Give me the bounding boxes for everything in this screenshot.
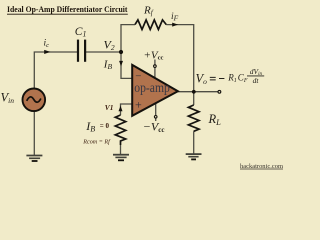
svg-text:dt: dt xyxy=(253,76,260,85)
svg-text:= 0: = 0 xyxy=(100,122,110,130)
svg-text:Ideal Op-Amp Differentiator Ci: Ideal Op-Amp Differentiator Circuit xyxy=(7,4,128,14)
svg-text:+: + xyxy=(135,98,142,112)
svg-text:Rcom = Rf: Rcom = Rf xyxy=(82,138,111,145)
svg-text:iF: iF xyxy=(171,12,179,23)
svg-text:op-amp: op-amp xyxy=(134,80,170,95)
svg-text:V1: V1 xyxy=(105,104,114,112)
